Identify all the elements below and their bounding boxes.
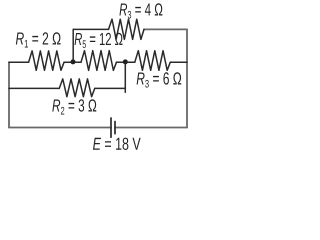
label R1 = 2 ohm: [16, 32, 61, 47]
label R3 = 4 ohm (top): [119, 3, 162, 18]
resistor R1 = 2 ohm: [29, 51, 65, 70]
battery E long plate (left): [110, 118, 112, 137]
resistor R3 = 4 ohm (top branch): [109, 19, 145, 39]
wire: top branch right segment: [144, 28, 187, 30]
wire: R5 to node B to R3(6ohm): [117, 61, 135, 63]
label E = 18 V: [93, 138, 141, 150]
wire: node A up to top branch: [72, 29, 74, 62]
wire: right vertical of outer loop: [186, 29, 188, 127]
resistor R5 = 12 ohm: [81, 51, 117, 71]
wire: R1 to node A: [64, 61, 81, 63]
label R5 = 12 ohm: [75, 33, 123, 48]
resistor R3 = 6 ohm (middle branch right): [135, 51, 171, 71]
wire: left end to R1: [9, 61, 29, 63]
wire: battery to bottom right corner: [115, 127, 187, 129]
wire: bottom left to battery: [9, 127, 111, 129]
battery E short plate (right): [114, 122, 116, 134]
wire: R2 to node B vertical: [95, 87, 126, 89]
wire: R2 branch left: [9, 87, 59, 89]
label R2 = 3 ohm: [52, 99, 96, 114]
wire: R3(6ohm) to right vertical: [170, 61, 187, 63]
wire: node B vertical down to R2 branch: [124, 62, 126, 92]
node B junction dot: [123, 59, 128, 64]
resistor R2 = 3 ohm: [59, 79, 95, 97]
node A junction dot: [71, 59, 76, 64]
wire: top branch left segment: [73, 28, 108, 30]
label R3 = 6 ohm (right): [137, 72, 182, 87]
wire: left vertical of outer loop: [8, 62, 10, 127]
